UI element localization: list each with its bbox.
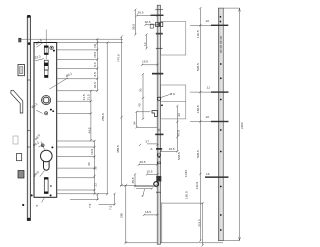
svg-text:160.5: 160.5 [185, 191, 189, 199]
middle view dimensions [120, 10, 177, 215]
svg-text:20: 20 [87, 162, 91, 166]
screw dot [158, 156, 160, 158]
crossbar [156, 33, 163, 35]
drive rod [27, 15, 31, 221]
svg-text:67.5: 67.5 [177, 130, 181, 136]
svg-text:455.5: 455.5 [116, 145, 120, 153]
latch axis line [45, 30, 47, 60]
bottom slot [44, 178, 48, 194]
svg-text:(3): (3) [93, 44, 97, 48]
svg-text:18.5: 18.5 [145, 20, 151, 24]
crossbar [155, 134, 163, 136]
lock case [34, 43, 57, 198]
svg-text:11: 11 [207, 86, 210, 90]
rod joint ticks [27, 80, 30, 147]
svg-text:18.5: 18.5 [93, 51, 97, 57]
screw boss top [50, 46, 53, 49]
svg-text:14: 14 [143, 42, 147, 46]
svg-text:7.5: 7.5 [88, 203, 92, 208]
dim labels left view [82, 44, 123, 218]
bottom edge screw dots [31, 194, 33, 196]
svg-text:7.5: 7.5 [109, 205, 113, 210]
callout d6.1 lower [31, 102, 43, 114]
svg-text:508.5: 508.5 [177, 152, 181, 160]
latch front [156, 176, 161, 182]
svg-text:16.5: 16.5 [90, 148, 94, 154]
small bracket left [13, 136, 18, 144]
svg-text:16: 16 [206, 172, 210, 176]
svg-text:26.5: 26.5 [140, 160, 146, 164]
dim 34 [135, 111, 157, 129]
d8 hole [157, 97, 160, 100]
screw dot left bottom [22, 204, 24, 206]
svg-text:15.5: 15.5 [147, 170, 153, 174]
280 junction arrows [120, 35, 127, 244]
screw dot [161, 104, 163, 106]
roller locking point [152, 73, 163, 75]
svg-text:747.6: 747.6 [116, 54, 120, 62]
callout 23.3 [34, 54, 44, 60]
svg-text:140.5: 140.5 [196, 30, 200, 38]
dim col B [91, 37, 126, 243]
centre case flange line [161, 101, 186, 103]
svg-text:92: 92 [177, 113, 181, 117]
svg-text:16.5: 16.5 [145, 210, 151, 214]
stamp marks [220, 36, 222, 53]
svg-text:46.5: 46.5 [93, 82, 97, 88]
svg-text:508.5: 508.5 [196, 63, 200, 71]
svg-text:27: 27 [146, 140, 150, 144]
svg-text:8.5: 8.5 [93, 72, 97, 77]
strip screw dots [220, 16, 222, 231]
callout d3.4 [35, 38, 44, 47]
callout R8.5 [34, 133, 45, 150]
keep mark upper left [19, 38, 21, 42]
slot 2 [44, 60, 48, 77]
follower hub [42, 96, 51, 105]
keep block top-left [18, 65, 24, 76]
bottom vert line [161, 202, 163, 243]
top crossbar [155, 9, 163, 11]
svg-text:156.5: 156.5 [196, 105, 200, 113]
right dim columns [190, 8, 240, 245]
label 5 below case [35, 198, 44, 207]
svg-text:323.5: 323.5 [198, 219, 202, 227]
dark block lower-left [18, 171, 24, 179]
svg-text:19.5: 19.5 [142, 60, 148, 64]
centre case [161, 85, 186, 119]
screw dots near follower [50, 109, 52, 111]
svg-text:34: 34 [133, 121, 137, 125]
svg-text:280: 280 [119, 213, 123, 218]
svg-text:16.5: 16.5 [169, 147, 175, 151]
svg-text:21.5: 21.5 [87, 94, 91, 100]
svg-text:43: 43 [138, 103, 142, 107]
svg-text:8.3: 8.3 [93, 62, 97, 67]
svg-text:5: 5 [35, 205, 39, 207]
svg-text:33: 33 [93, 166, 97, 170]
keep block mid-left [17, 154, 22, 161]
svg-text:35.5: 35.5 [132, 24, 136, 30]
top aux case [161, 22, 186, 56]
locking point crossbars [211, 25, 228, 26]
svg-text:10: 10 [206, 115, 210, 119]
latch slot [44, 46, 48, 55]
top hook box [156, 22, 163, 26]
hook left [152, 111, 158, 117]
euro cylinder hole [32, 140, 53, 170]
rail edge strip [218, 8, 223, 241]
cylinder front [154, 182, 159, 187]
svg-text:22: 22 [93, 183, 97, 187]
svg-text:30: 30 [139, 88, 143, 92]
svg-text:1033: 1033 [184, 170, 188, 177]
svg-text:508.5: 508.5 [196, 150, 200, 158]
tilt lever [11, 90, 23, 113]
svg-text:21.5: 21.5 [82, 94, 86, 100]
small tick [156, 191, 161, 193]
svg-text:Ø 8: Ø 8 [170, 92, 175, 96]
callout d4.1 upper [50, 71, 74, 89]
svg-text:10: 10 [206, 19, 210, 23]
section A mark [156, 148, 162, 149]
ext lines [19, 39, 223, 243]
screw on faceplate top [28, 42, 31, 45]
svg-text:26.5: 26.5 [138, 11, 144, 15]
svg-text:255.5: 255.5 [101, 113, 105, 121]
svg-text:140.5: 140.5 [195, 181, 199, 189]
svg-text:44.5: 44.5 [87, 127, 91, 133]
callout d5.5 [32, 170, 44, 178]
rail strip [157, 5, 160, 244]
arrows right [239, 8, 241, 240]
svg-text:35.5: 35.5 [131, 177, 135, 183]
dimension arrow ticks [90, 7, 204, 246]
svg-text:2200: 2200 [240, 122, 244, 129]
